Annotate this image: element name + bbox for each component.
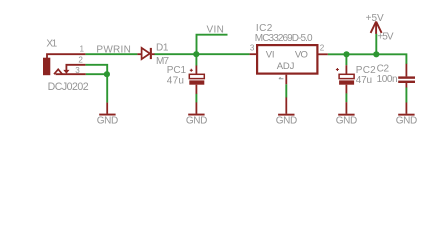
svg-text:GND: GND — [97, 115, 119, 126]
svg-text:DCJ0202: DCJ0202 — [48, 81, 89, 93]
svg-text:47u: 47u — [167, 75, 184, 86]
svg-text:VI: VI — [266, 50, 275, 61]
svg-text:3: 3 — [75, 66, 80, 75]
svg-text:GND: GND — [396, 115, 418, 126]
svg-text:VO: VO — [295, 50, 308, 61]
svg-text:C2: C2 — [377, 63, 390, 74]
svg-text:X1: X1 — [46, 39, 57, 50]
svg-text:+5V: +5V — [366, 13, 384, 24]
svg-text:3: 3 — [250, 44, 255, 53]
svg-text:D1: D1 — [156, 43, 169, 54]
svg-text:GND: GND — [336, 115, 358, 126]
svg-text:2: 2 — [78, 56, 83, 65]
svg-text:47u: 47u — [356, 75, 372, 86]
svg-text:100n: 100n — [377, 74, 398, 85]
svg-text:ADJ: ADJ — [277, 61, 295, 72]
svg-text:1: 1 — [80, 44, 85, 53]
svg-text:VIN: VIN — [207, 25, 224, 36]
svg-text:+5V: +5V — [377, 32, 393, 43]
svg-text:PWRIN: PWRIN — [96, 45, 130, 56]
svg-text:GND: GND — [276, 115, 298, 126]
svg-text:GND: GND — [186, 115, 208, 126]
svg-text:MC33269D-5.0: MC33269D-5.0 — [255, 33, 313, 44]
svg-text:2: 2 — [320, 44, 325, 53]
